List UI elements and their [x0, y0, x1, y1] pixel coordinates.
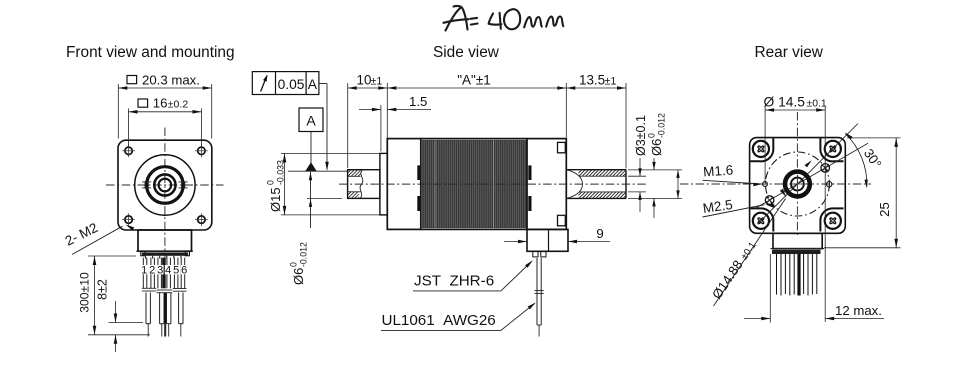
front connector plate: [136, 250, 193, 252]
svg-text:Side view: Side view: [433, 44, 500, 61]
dim 1.5 line: [359, 109, 381, 111]
rear tube hatch bottom: [578, 191, 580, 193]
svg-text:5: 5: [173, 265, 179, 277]
shaft hatch bottom: [348, 192, 351, 195]
rear tube hatch top: [578, 169, 580, 171]
rear horizontal centerline: [680, 183, 871, 185]
bolt circle dia14.5: [765, 152, 829, 216]
dim 10 line: [348, 87, 388, 89]
dim 25 line: [895, 138, 897, 248]
svg-text:±1: ±1: [605, 76, 617, 88]
dim dia14.5 extension lines: [764, 107, 766, 183]
dim 12max line: [744, 318, 770, 320]
svg-text:UL1061 AWG26: UL1061 AWG26: [382, 312, 496, 329]
front connector pins: [145, 256, 147, 259]
pin numbers 1-6: [141, 265, 148, 274]
front pilot boss circle: [135, 155, 195, 215]
front right tab: [179, 181, 188, 183]
shaft bore lines: [348, 175, 361, 177]
svg-text:0: 0: [647, 133, 657, 138]
dim 20.3 extension lines: [117, 84, 119, 139]
rear lead wires: [776, 254, 778, 295]
wire break marks: [142, 287, 156, 289]
rear tube bore lines: [579, 175, 626, 177]
rear tube break: [566, 170, 582, 199]
hole M2.5 upper: [821, 164, 830, 173]
svg-text:JST ZHR-6: JST ZHR-6: [414, 273, 494, 290]
front bearing ring: [147, 167, 184, 204]
svg-text:-0.012: -0.012: [657, 113, 667, 138]
front mounting hole M2 #3: [125, 216, 132, 223]
dim dia15 extension lines: [281, 152, 380, 154]
svg-text:12 max.: 12 max.: [835, 303, 882, 318]
arrow on diagonal: [805, 160, 812, 167]
dim dia15 text: [266, 160, 286, 212]
svg-text:Ø6: Ø6: [649, 139, 664, 156]
front clamp tabs: [417, 165, 420, 180]
rear tube outline: [566, 169, 626, 171]
side connector pins: [533, 251, 538, 257]
front shaft circle: [159, 179, 172, 192]
svg-text:16: 16: [153, 96, 168, 111]
datum triangle: [305, 162, 317, 171]
front mounting hole M2 #1: [125, 147, 132, 154]
dim 1.5 extension line: [380, 105, 382, 152]
shaft break line: [360, 170, 363, 199]
svg-text:2: 2: [149, 265, 155, 277]
front mounting hole M2 #4: [198, 216, 205, 223]
dim dia14.5 line: [765, 109, 825, 111]
svg-text:4: 4: [165, 265, 171, 277]
dim 300 line: [94, 256, 96, 335]
svg-text:Ø15: Ø15: [268, 187, 283, 212]
handwritten note A=40mm: [444, 6, 564, 31]
svg-text:10: 10: [357, 73, 372, 88]
side dim extension lines: [347, 83, 349, 168]
front vertical centerline: [164, 128, 166, 259]
hole M1.6 right: [827, 182, 832, 187]
svg-text:±1: ±1: [371, 76, 383, 88]
datum extension line: [288, 170, 348, 172]
front horizontal centerline: [106, 184, 224, 186]
rear connector plate: [771, 248, 825, 250]
svg-text:-0.012: -0.012: [299, 242, 309, 267]
svg-text:25: 25: [877, 202, 892, 217]
front lead wires lower: [145, 293, 147, 324]
diagonal 45deg line: [758, 124, 859, 225]
rear hub inner circle: [791, 178, 804, 191]
dim 13.5 line: [566, 87, 626, 89]
dim dia15 line: [284, 153, 286, 215]
rear corner screw #3: [753, 213, 769, 229]
fcf leader: [319, 83, 327, 85]
svg-text:300±10: 300±10: [78, 272, 92, 313]
rear corner screw #2: [825, 141, 841, 157]
dim 16 line: [129, 111, 202, 113]
svg-text:A: A: [308, 77, 318, 92]
hole M2.5 lower: [765, 196, 774, 205]
rear view flange square: [750, 138, 846, 234]
front inner ring: [154, 174, 175, 195]
front mounting hole M2 #2: [198, 147, 205, 154]
stator laminations: [421, 140, 527, 228]
svg-text:Ø 14.5: Ø 14.5: [764, 95, 806, 110]
hole M1.6 left: [763, 182, 768, 187]
dim 12max extension line: [769, 254, 771, 323]
rear tube extension lines: [628, 169, 682, 171]
rear connector housing: [773, 233, 822, 248]
svg-text:6: 6: [181, 265, 187, 277]
svg-text:0: 0: [266, 180, 276, 185]
dim 20.3 line: [118, 87, 211, 89]
svg-text:A: A: [306, 113, 316, 129]
svg-text:1.5: 1.5: [409, 94, 427, 109]
dim 300 extension lines: [88, 255, 136, 257]
svg-text:"A"±1: "A"±1: [457, 73, 491, 88]
svg-text:M1.6: M1.6: [703, 162, 734, 179]
svg-text:9: 9: [596, 226, 603, 241]
rear end bell: [527, 139, 566, 230]
front boss: [380, 153, 387, 215]
dim dia6 rear arrows: [653, 158, 655, 170]
side view centerline: [339, 183, 648, 185]
front end bell: [387, 139, 421, 230]
dim dia6 front ext: [307, 197, 342, 199]
svg-text:1: 1: [141, 265, 147, 277]
svg-text:3: 3: [157, 265, 163, 277]
side wire tail: [538, 325, 540, 337]
dim 8 extension line: [109, 322, 144, 324]
dim dia6 rear text: [647, 113, 667, 156]
svg-text:Front view and mounting: Front view and mounting: [66, 44, 235, 61]
diagonal 30deg line: [755, 143, 869, 209]
shaft outline: [348, 170, 380, 199]
side connector housing: [527, 229, 568, 251]
dim dia3 arrows: [639, 158, 641, 176]
front view flange square: [118, 140, 212, 230]
rear corner screw #1: [753, 141, 769, 157]
front lead wires upper: [142, 258, 144, 289]
dim dia3 text: [634, 115, 648, 156]
dim 20.3 text: [127, 76, 137, 84]
svg-text:13.5: 13.5: [579, 73, 605, 88]
svg-text:±0.1: ±0.1: [807, 99, 827, 110]
svg-text:0.05: 0.05: [278, 77, 305, 92]
svg-text:±0.2: ±0.2: [168, 99, 189, 111]
rear bell slot top: [558, 142, 566, 152]
dim 8 arrows: [115, 301, 117, 323]
front left tab: [142, 181, 151, 183]
dim A line: [387, 87, 566, 89]
feature control frame 0.05 A: [252, 72, 319, 95]
rear vertical centerline: [796, 112, 798, 236]
svg-text:0: 0: [289, 262, 299, 267]
dim 16 extension lines: [128, 109, 130, 147]
svg-text:Ø6: Ø6: [291, 268, 306, 285]
side lead wire: [536, 258, 538, 325]
dim 9 arrows: [504, 241, 527, 243]
rear clamp tabs: [528, 165, 531, 180]
dim 30deg arc: [845, 134, 867, 187]
dim dia6 rear line: [677, 170, 679, 199]
rear hub ring: [785, 172, 810, 197]
rear bell slot bottom: [558, 215, 566, 225]
dim 25 extension lines: [847, 137, 901, 139]
shaft hatch top: [347, 169, 349, 171]
datum A box: [299, 108, 323, 132]
dim 16 text: [138, 99, 148, 107]
dim dia6 front text: [289, 242, 309, 285]
svg-text:20.3 max.: 20.3 max.: [142, 73, 200, 88]
rear corner screw #4: [825, 213, 841, 229]
svg-text:Rear view: Rear view: [755, 44, 824, 61]
wire stripped tails: [147, 324, 149, 337]
dim dia6 front leader: [310, 172, 312, 228]
front connector housing: [138, 230, 192, 251]
datum leader: [310, 132, 312, 164]
svg-text:-0.033: -0.033: [276, 160, 286, 185]
rear hub cross: [789, 183, 806, 185]
svg-text:8±2: 8±2: [96, 279, 110, 300]
